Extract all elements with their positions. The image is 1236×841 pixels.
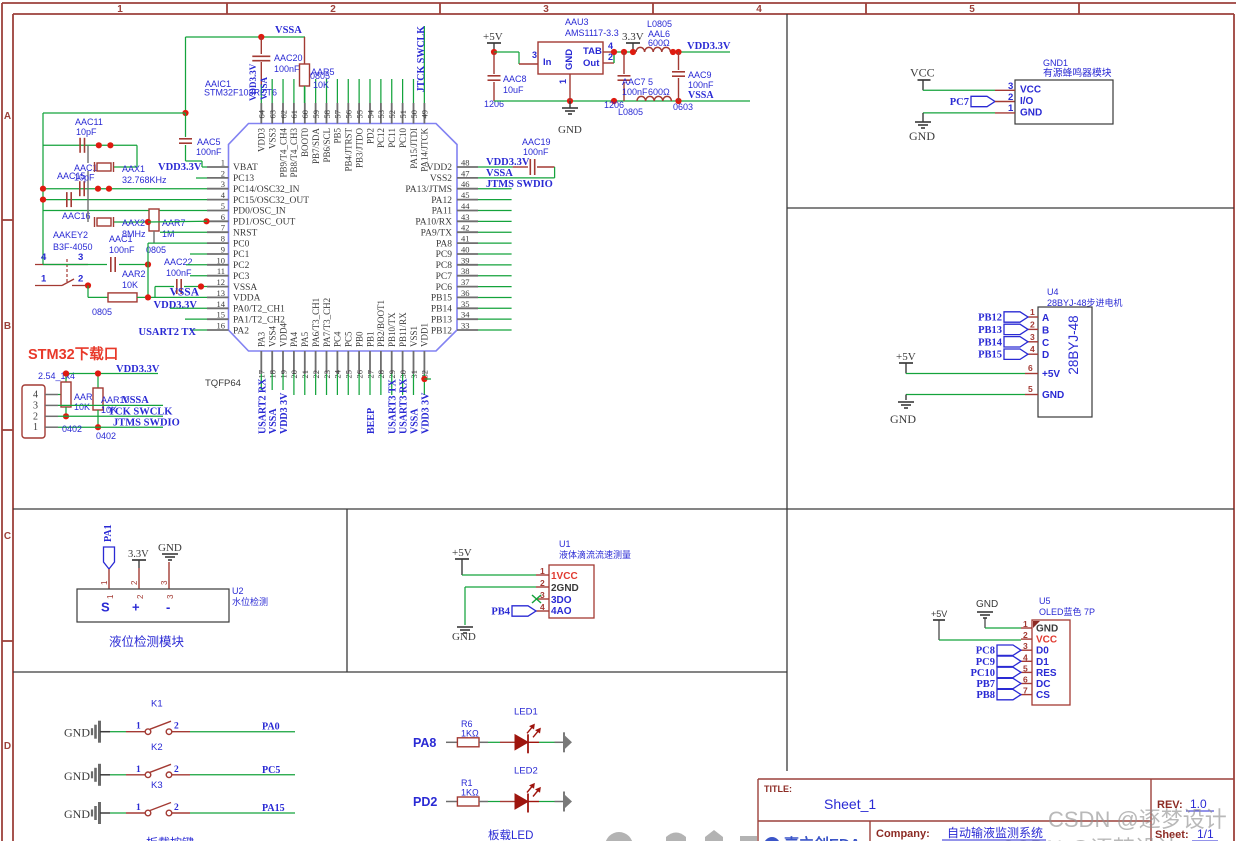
svg-text:GND: GND bbox=[1020, 108, 1042, 119]
svg-text:2.54_1x4: 2.54_1x4 bbox=[38, 371, 75, 381]
svg-text:PB13: PB13 bbox=[431, 315, 452, 325]
no-connect X pin3 bbox=[532, 595, 541, 603]
svg-text:3DO: 3DO bbox=[551, 595, 572, 606]
svg-text:1: 1 bbox=[558, 79, 568, 84]
svg-text:0402: 0402 bbox=[62, 424, 82, 434]
bottom net labels rotated bbox=[257, 378, 431, 434]
svg-text:3: 3 bbox=[221, 179, 225, 189]
svg-text:15: 15 bbox=[217, 310, 226, 320]
svg-text:PC7: PC7 bbox=[436, 272, 453, 282]
svg-text:USART3 TX: USART3 TX bbox=[388, 378, 399, 434]
svg-text:PA1/T2_CH2: PA1/T2_CH2 bbox=[233, 315, 285, 325]
svg-text:PB8: PB8 bbox=[976, 690, 995, 701]
svg-text:1: 1 bbox=[221, 158, 225, 168]
svg-text:28BYJ-48: 28BYJ-48 bbox=[1066, 315, 1081, 374]
svg-text:0402: 0402 bbox=[96, 431, 116, 441]
svg-text:AAC20: AAC20 bbox=[274, 53, 303, 63]
svg-text:PB4: PB4 bbox=[491, 607, 510, 618]
resistor R1 1K bbox=[446, 778, 479, 806]
svg-text:U4: U4 bbox=[1047, 287, 1059, 297]
svg-text:2: 2 bbox=[78, 274, 83, 285]
mcu bottom pins 17-32 bbox=[257, 298, 430, 379]
svg-text:AAX2: AAX2 bbox=[122, 218, 145, 228]
svg-text:44: 44 bbox=[461, 201, 470, 211]
svg-text:1: 1 bbox=[1030, 307, 1035, 317]
power +5V symbol bbox=[483, 31, 503, 55]
svg-text:VSSA: VSSA bbox=[259, 76, 269, 100]
capacitor AAC16 bbox=[62, 192, 91, 221]
svg-text:液体滴流流速测量: 液体滴流流速测量 bbox=[559, 549, 631, 560]
svg-text:VDD1: VDD1 bbox=[420, 323, 430, 347]
svg-text:C: C bbox=[4, 531, 11, 542]
svg-text:JTMS SWDIO: JTMS SWDIO bbox=[486, 179, 553, 190]
svg-text:62: 62 bbox=[278, 110, 288, 119]
wire pin2 bbox=[196, 177, 207, 179]
svg-text:51: 51 bbox=[398, 110, 408, 119]
wire VDD3.3V row download bbox=[58, 370, 158, 394]
zone labels bbox=[4, 4, 975, 752]
title block bbox=[758, 779, 1234, 841]
capacitor AAC5 100nF bbox=[179, 113, 222, 167]
svg-text:VDD3 3V: VDD3 3V bbox=[279, 392, 290, 434]
svg-text:37: 37 bbox=[461, 277, 470, 287]
svg-text:VSSA: VSSA bbox=[275, 25, 302, 36]
capacitor AAC14 bbox=[57, 163, 103, 196]
svg-text:14: 14 bbox=[217, 299, 226, 309]
svg-text:0805: 0805 bbox=[92, 307, 112, 317]
svg-text:54: 54 bbox=[365, 109, 375, 118]
svg-text:AAC16: AAC16 bbox=[62, 211, 91, 221]
svg-text:CSDN @逐梦设计: CSDN @逐梦设计 bbox=[1000, 836, 1179, 841]
svg-text:C: C bbox=[1042, 338, 1049, 349]
svg-text:PB14: PB14 bbox=[978, 337, 1003, 348]
mcu reference labels bbox=[204, 79, 277, 389]
svg-text:GND: GND bbox=[64, 769, 90, 783]
buzzer module GND1 box bbox=[995, 58, 1113, 124]
svg-text:Company:: Company: bbox=[876, 828, 930, 840]
svg-text:1: 1 bbox=[540, 566, 545, 576]
capacitor AAC20 bbox=[252, 37, 302, 103]
svg-text:JTCK SWCLK: JTCK SWCLK bbox=[416, 26, 427, 93]
oled wires bbox=[939, 628, 1021, 640]
mcu bottom pin wires bbox=[261, 374, 424, 395]
svg-text:A: A bbox=[1042, 313, 1049, 324]
svg-text:2: 2 bbox=[1023, 630, 1028, 640]
wire crystal rails bbox=[40, 113, 207, 265]
svg-text:PD0/OSC_IN: PD0/OSC_IN bbox=[233, 207, 286, 217]
svg-text:AAR7: AAR7 bbox=[162, 218, 186, 228]
mcu right pins 48-33 bbox=[405, 158, 478, 337]
svg-text:NRST: NRST bbox=[233, 228, 257, 238]
svg-text:2: 2 bbox=[174, 803, 179, 813]
svg-text:AAKEY2: AAKEY2 bbox=[53, 230, 88, 240]
svg-text:VSSA: VSSA bbox=[170, 287, 200, 299]
watermark lceda logo bbox=[764, 835, 861, 841]
oled U5 box bbox=[1021, 619, 1070, 705]
svg-text:LED2: LED2 bbox=[514, 766, 538, 777]
svg-text:59: 59 bbox=[311, 110, 321, 119]
svg-text:52: 52 bbox=[387, 110, 397, 119]
stepper motor U4 28BYJ-48 bbox=[1038, 287, 1123, 417]
svg-text:GND: GND bbox=[564, 49, 575, 70]
svg-text:GND: GND bbox=[909, 129, 935, 143]
svg-text:100nF: 100nF bbox=[688, 80, 714, 90]
svg-text:PA15: PA15 bbox=[262, 803, 285, 814]
net labels download bbox=[62, 395, 180, 441]
svg-text:PC0: PC0 bbox=[233, 239, 250, 249]
svg-text:3.3V: 3.3V bbox=[622, 31, 644, 43]
wires regulator output bbox=[603, 49, 636, 63]
svg-text:PA14/JTCK: PA14/JTCK bbox=[420, 128, 430, 172]
svg-text:PB5: PB5 bbox=[333, 128, 343, 144]
svg-text:有源蜂鸣器模块: 有源蜂鸣器模块 bbox=[1043, 66, 1112, 79]
svg-text:12: 12 bbox=[217, 277, 226, 287]
svg-text:600Ω: 600Ω bbox=[648, 87, 670, 97]
svg-text:B3F-4050: B3F-4050 bbox=[53, 242, 93, 252]
svg-text:PB8/T4_CH3: PB8/T4_CH3 bbox=[289, 128, 299, 178]
svg-text:+5V: +5V bbox=[931, 609, 947, 619]
svg-text:2: 2 bbox=[130, 580, 139, 585]
svg-text:板载LED: 板载LED bbox=[488, 828, 533, 841]
download connector P1 bbox=[22, 385, 58, 438]
svg-text:PC8: PC8 bbox=[976, 646, 995, 657]
svg-text:+5V: +5V bbox=[896, 351, 916, 363]
svg-text:PC7: PC7 bbox=[950, 97, 969, 108]
svg-text:34: 34 bbox=[461, 310, 470, 320]
mcu right pin wires 45-33 bbox=[478, 200, 512, 330]
svg-text:100nF: 100nF bbox=[166, 268, 192, 278]
svg-text:D: D bbox=[1042, 350, 1049, 361]
svg-text:16: 16 bbox=[217, 321, 226, 331]
svg-text:USART2 RX: USART2 RX bbox=[257, 378, 268, 434]
wire +5V to In bbox=[494, 52, 538, 64]
ground rail power bbox=[494, 98, 750, 104]
svg-text:1: 1 bbox=[136, 722, 141, 732]
svg-text:PC2: PC2 bbox=[233, 261, 250, 271]
svg-text:1M: 1M bbox=[162, 229, 175, 239]
svg-text:PB11/RX: PB11/RX bbox=[398, 312, 408, 347]
water level module U2 box bbox=[77, 580, 268, 622]
svg-text:4: 4 bbox=[756, 4, 762, 15]
svg-text:PA0: PA0 bbox=[262, 722, 280, 733]
svg-text:4: 4 bbox=[1030, 344, 1035, 354]
svg-text:GND: GND bbox=[64, 807, 90, 821]
svg-text:BEEP: BEEP bbox=[366, 408, 377, 434]
net flag PA1 vertical bbox=[103, 524, 115, 589]
wire U1 GND bbox=[452, 587, 536, 643]
power VCC symbol buzzer bbox=[910, 66, 935, 91]
svg-text:3: 3 bbox=[1023, 641, 1028, 651]
svg-text:PB4/JTRST: PB4/JTRST bbox=[344, 127, 354, 171]
svg-text:1: 1 bbox=[33, 422, 38, 433]
svg-text:VSS2: VSS2 bbox=[430, 174, 452, 184]
svg-text:4: 4 bbox=[41, 252, 47, 263]
ground symbol power GND bbox=[558, 74, 582, 136]
svg-text:水位检测: 水位检测 bbox=[232, 596, 268, 607]
svg-text:D: D bbox=[4, 741, 11, 752]
svg-text:PA9/TX: PA9/TX bbox=[421, 228, 452, 238]
svg-text:PB12: PB12 bbox=[978, 313, 1002, 324]
svg-text:GND: GND bbox=[452, 631, 476, 643]
stepper GND pin bbox=[890, 384, 1064, 426]
svg-text:GND: GND bbox=[890, 412, 916, 426]
svg-text:PA4: PA4 bbox=[289, 331, 299, 347]
svg-text:TQFP64: TQFP64 bbox=[205, 378, 241, 389]
junction dot pin32 wire bbox=[421, 376, 427, 382]
svg-text:PB14: PB14 bbox=[431, 305, 452, 315]
svg-text:8: 8 bbox=[221, 234, 225, 244]
svg-text:3: 3 bbox=[78, 252, 83, 263]
svg-text:液位检测模块: 液位检测模块 bbox=[109, 634, 185, 649]
capacitor AAC22 100nF bbox=[155, 257, 207, 297]
svg-text:100nF: 100nF bbox=[622, 87, 648, 97]
svg-text:VDD3.3V: VDD3.3V bbox=[154, 300, 198, 311]
svg-text:5: 5 bbox=[1028, 384, 1033, 394]
net label JTMS SWDIO pin46 bbox=[478, 179, 553, 190]
svg-text:60: 60 bbox=[300, 110, 310, 119]
wire pin7 row bbox=[160, 231, 207, 233]
svg-text:PB13: PB13 bbox=[978, 325, 1002, 336]
svg-text:7: 7 bbox=[1023, 686, 1028, 696]
svg-text:U5: U5 bbox=[1039, 596, 1051, 606]
svg-text:CSDN @逐梦设计: CSDN @逐梦设计 bbox=[1048, 807, 1227, 832]
mcu AAIC1 STM32F103RCT6 body bbox=[229, 124, 458, 352]
svg-text:PB7/SDA: PB7/SDA bbox=[311, 128, 321, 165]
svg-text:+5V: +5V bbox=[483, 31, 503, 43]
svg-text:GND: GND bbox=[976, 599, 998, 610]
svg-text:TAB: TAB bbox=[583, 46, 602, 57]
wire VCC to buzzer bbox=[923, 89, 995, 91]
svg-text:K2: K2 bbox=[151, 742, 163, 753]
switch K3 bbox=[110, 780, 190, 816]
svg-text:D0: D0 bbox=[1036, 646, 1049, 657]
svg-text:DC: DC bbox=[1036, 679, 1050, 690]
ground symbol K2 bbox=[64, 764, 110, 786]
svg-text:2: 2 bbox=[1008, 92, 1013, 103]
capacitor AAC1 100nF bbox=[43, 234, 151, 272]
svg-text:PA5: PA5 bbox=[300, 331, 310, 347]
mcu left pins 1-16 bbox=[207, 158, 309, 337]
led LED1 bbox=[479, 706, 572, 753]
svg-text:5: 5 bbox=[1023, 663, 1028, 673]
pushbutton AAKEY2 bbox=[35, 230, 93, 289]
svg-text:AMS1117-3.3: AMS1117-3.3 bbox=[565, 28, 619, 38]
svg-text:600Ω: 600Ω bbox=[648, 38, 670, 48]
power 3.3V symbol bbox=[622, 31, 644, 52]
svg-text:47: 47 bbox=[461, 168, 470, 178]
svg-text:57: 57 bbox=[333, 110, 343, 119]
svg-text:AAC11: AAC11 bbox=[75, 117, 103, 127]
svg-text:1: 1 bbox=[41, 274, 47, 285]
svg-text:PB0: PB0 bbox=[354, 331, 364, 347]
svg-text:2: 2 bbox=[136, 594, 145, 599]
svg-text:PC14/OSC32_IN: PC14/OSC32_IN bbox=[233, 185, 300, 195]
net flag PB4 bbox=[512, 606, 536, 616]
svg-text:58: 58 bbox=[322, 110, 332, 119]
svg-text:PA6/T3_CH1: PA6/T3_CH1 bbox=[311, 298, 321, 347]
svg-text:USART2 TX: USART2 TX bbox=[139, 327, 197, 338]
svg-text:3: 3 bbox=[543, 4, 549, 15]
svg-text:AAC5: AAC5 bbox=[197, 137, 221, 147]
svg-text:VSSA: VSSA bbox=[688, 90, 714, 101]
capacitor AAC11 bbox=[75, 117, 103, 153]
svg-text:7: 7 bbox=[221, 223, 225, 233]
svg-text:3: 3 bbox=[532, 50, 537, 60]
resistor AAR9 10K bbox=[61, 382, 98, 419]
ground symbol U2 bbox=[158, 542, 182, 589]
svg-text:2GND: 2GND bbox=[551, 583, 579, 594]
svg-text:2: 2 bbox=[540, 578, 545, 588]
crystal AAX2 8MHz bbox=[88, 189, 148, 239]
svg-text:4AO: 4AO bbox=[551, 606, 572, 617]
svg-text:13: 13 bbox=[217, 288, 226, 298]
svg-text:VSS1: VSS1 bbox=[409, 326, 419, 347]
wires pins 8-16 left bbox=[148, 243, 207, 330]
svg-text:28BYJ-48步进电机: 28BYJ-48步进电机 bbox=[1047, 297, 1123, 308]
resistor AAR7 1M bbox=[145, 209, 210, 255]
svg-text:50: 50 bbox=[409, 110, 419, 119]
wire +5V to U1 bbox=[462, 574, 536, 576]
svg-text:36: 36 bbox=[461, 288, 470, 298]
svg-text:AAC8: AAC8 bbox=[503, 74, 527, 84]
svg-text:VSS4: VSS4 bbox=[267, 325, 277, 347]
svg-text:PA12: PA12 bbox=[431, 196, 452, 206]
svg-text:41: 41 bbox=[461, 234, 470, 244]
svg-text:PA1: PA1 bbox=[103, 524, 114, 542]
svg-text:2: 2 bbox=[174, 722, 179, 732]
svg-text:11: 11 bbox=[217, 266, 225, 276]
ground symbol buzzer bbox=[909, 113, 995, 143]
svg-text:AAC9: AAC9 bbox=[688, 70, 712, 80]
ground symbol K3 bbox=[64, 802, 110, 824]
svg-text:1: 1 bbox=[136, 803, 141, 813]
svg-text:63: 63 bbox=[267, 110, 277, 119]
svg-text:3: 3 bbox=[33, 400, 38, 411]
svg-text:100nF: 100nF bbox=[274, 64, 300, 74]
svg-text:GND1: GND1 bbox=[1043, 58, 1068, 68]
svg-text:3: 3 bbox=[160, 580, 169, 585]
svg-text:VSS3: VSS3 bbox=[267, 128, 277, 150]
download connector labels bbox=[38, 364, 160, 381]
svg-text:10K: 10K bbox=[74, 402, 90, 412]
svg-text:1: 1 bbox=[100, 580, 109, 585]
title block texts bbox=[764, 784, 1218, 841]
svg-text:PB15: PB15 bbox=[978, 350, 1002, 361]
svg-text:Out: Out bbox=[583, 58, 600, 69]
crystal AAX1 32.768KHz bbox=[95, 162, 168, 185]
svg-text:PC1: PC1 bbox=[233, 250, 250, 260]
svg-text:PD2: PD2 bbox=[413, 795, 437, 809]
svg-text:1KΩ: 1KΩ bbox=[461, 728, 479, 738]
svg-text:1KΩ: 1KΩ bbox=[461, 788, 479, 798]
svg-text:OLED蓝色 7P: OLED蓝色 7P bbox=[1039, 606, 1095, 617]
svg-text:GND: GND bbox=[558, 124, 582, 136]
svg-text:AAC7 5: AAC7 5 bbox=[622, 77, 653, 87]
svg-text:K1: K1 bbox=[151, 699, 163, 710]
regulator AAU3 AMS1117-3.3 bbox=[532, 17, 619, 84]
svg-text:100nF: 100nF bbox=[196, 147, 222, 157]
svg-text:1VCC: 1VCC bbox=[551, 571, 578, 582]
resistor AAR10 10K bbox=[93, 388, 130, 430]
svg-text:AAU3: AAU3 bbox=[565, 17, 589, 27]
svg-text:PC6: PC6 bbox=[436, 283, 453, 293]
svg-text:PA0/T2_CH1: PA0/T2_CH1 bbox=[233, 305, 285, 315]
svg-text:55: 55 bbox=[354, 110, 364, 119]
svg-text:PA3: PA3 bbox=[257, 331, 267, 347]
svg-text:6: 6 bbox=[1023, 675, 1028, 685]
svg-text:B: B bbox=[1042, 325, 1049, 336]
power +5V oled bbox=[931, 609, 947, 640]
svg-text:6: 6 bbox=[1028, 363, 1033, 373]
led LED2 bbox=[479, 766, 572, 813]
svg-text:RES: RES bbox=[1036, 668, 1057, 679]
resistor AAR5 bbox=[300, 37, 335, 103]
switch K1 bbox=[110, 699, 190, 735]
svg-text:VDD3.3V: VDD3.3V bbox=[158, 162, 202, 173]
svg-text:45: 45 bbox=[461, 190, 470, 200]
svg-text:4: 4 bbox=[1023, 652, 1028, 662]
svg-text:I/O: I/O bbox=[1020, 96, 1034, 107]
svg-text:PB15: PB15 bbox=[431, 294, 452, 304]
svg-text:VDD3 3V: VDD3 3V bbox=[420, 392, 431, 434]
svg-text:10: 10 bbox=[217, 255, 226, 265]
svg-text:10pF: 10pF bbox=[76, 127, 97, 137]
svg-text:GND: GND bbox=[1042, 390, 1064, 401]
svg-text:PA13/JTMS: PA13/JTMS bbox=[405, 185, 452, 195]
svg-text:PD2: PD2 bbox=[365, 128, 375, 144]
svg-text:64: 64 bbox=[257, 109, 267, 118]
svg-text:PB1: PB1 bbox=[365, 331, 375, 347]
svg-text:VDD4: VDD4 bbox=[278, 323, 288, 347]
svg-text:LED1: LED1 bbox=[514, 706, 538, 717]
svg-text:0603: 0603 bbox=[673, 102, 693, 112]
net label VDD3.3V pin48 bbox=[478, 157, 530, 168]
watermark icons bottom bbox=[605, 830, 757, 841]
svg-text:PC11: PC11 bbox=[387, 128, 397, 148]
svg-text:39: 39 bbox=[461, 255, 470, 265]
capacitor AAC9 100nF bbox=[672, 52, 714, 112]
svg-text:PB3/JTDO: PB3/JTDO bbox=[354, 128, 364, 169]
inductor AAL6 600 ohm bbox=[636, 19, 730, 55]
svg-text:2: 2 bbox=[174, 765, 179, 775]
capacitor AAC19 bbox=[478, 137, 555, 178]
svg-text:VDD2: VDD2 bbox=[427, 163, 453, 173]
svg-text:3: 3 bbox=[1008, 81, 1013, 92]
wires download rows bbox=[58, 405, 163, 427]
svg-text:+: + bbox=[132, 600, 140, 615]
svg-text:PC15/OSC32_OUT: PC15/OSC32_OUT bbox=[233, 196, 309, 206]
svg-text:PB7: PB7 bbox=[976, 679, 995, 690]
svg-text:D1: D1 bbox=[1036, 657, 1049, 668]
svg-text:3.3V: 3.3V bbox=[128, 549, 149, 560]
svg-text:PA10/RX: PA10/RX bbox=[415, 218, 452, 228]
svg-text:PB9/T4_CH4: PB9/T4_CH4 bbox=[278, 128, 288, 178]
svg-text:10uF: 10uF bbox=[503, 85, 524, 95]
svg-text:2: 2 bbox=[221, 168, 225, 178]
svg-text:PB12: PB12 bbox=[431, 326, 452, 336]
wire K1 to PA0 bbox=[190, 722, 295, 733]
mcu top pin wires bbox=[272, 26, 424, 103]
svg-text:B: B bbox=[4, 321, 11, 332]
svg-text:PA8: PA8 bbox=[436, 239, 452, 249]
svg-text:VDD3: VDD3 bbox=[257, 128, 267, 152]
svg-text:PB10/TX: PB10/TX bbox=[387, 312, 397, 347]
svg-text:4: 4 bbox=[33, 390, 38, 401]
ground symbol K1 bbox=[64, 721, 110, 743]
svg-text:1: 1 bbox=[136, 765, 141, 775]
stepper pins ABCD bbox=[978, 307, 1049, 361]
svg-text:VDD3.3V: VDD3.3V bbox=[687, 41, 731, 52]
